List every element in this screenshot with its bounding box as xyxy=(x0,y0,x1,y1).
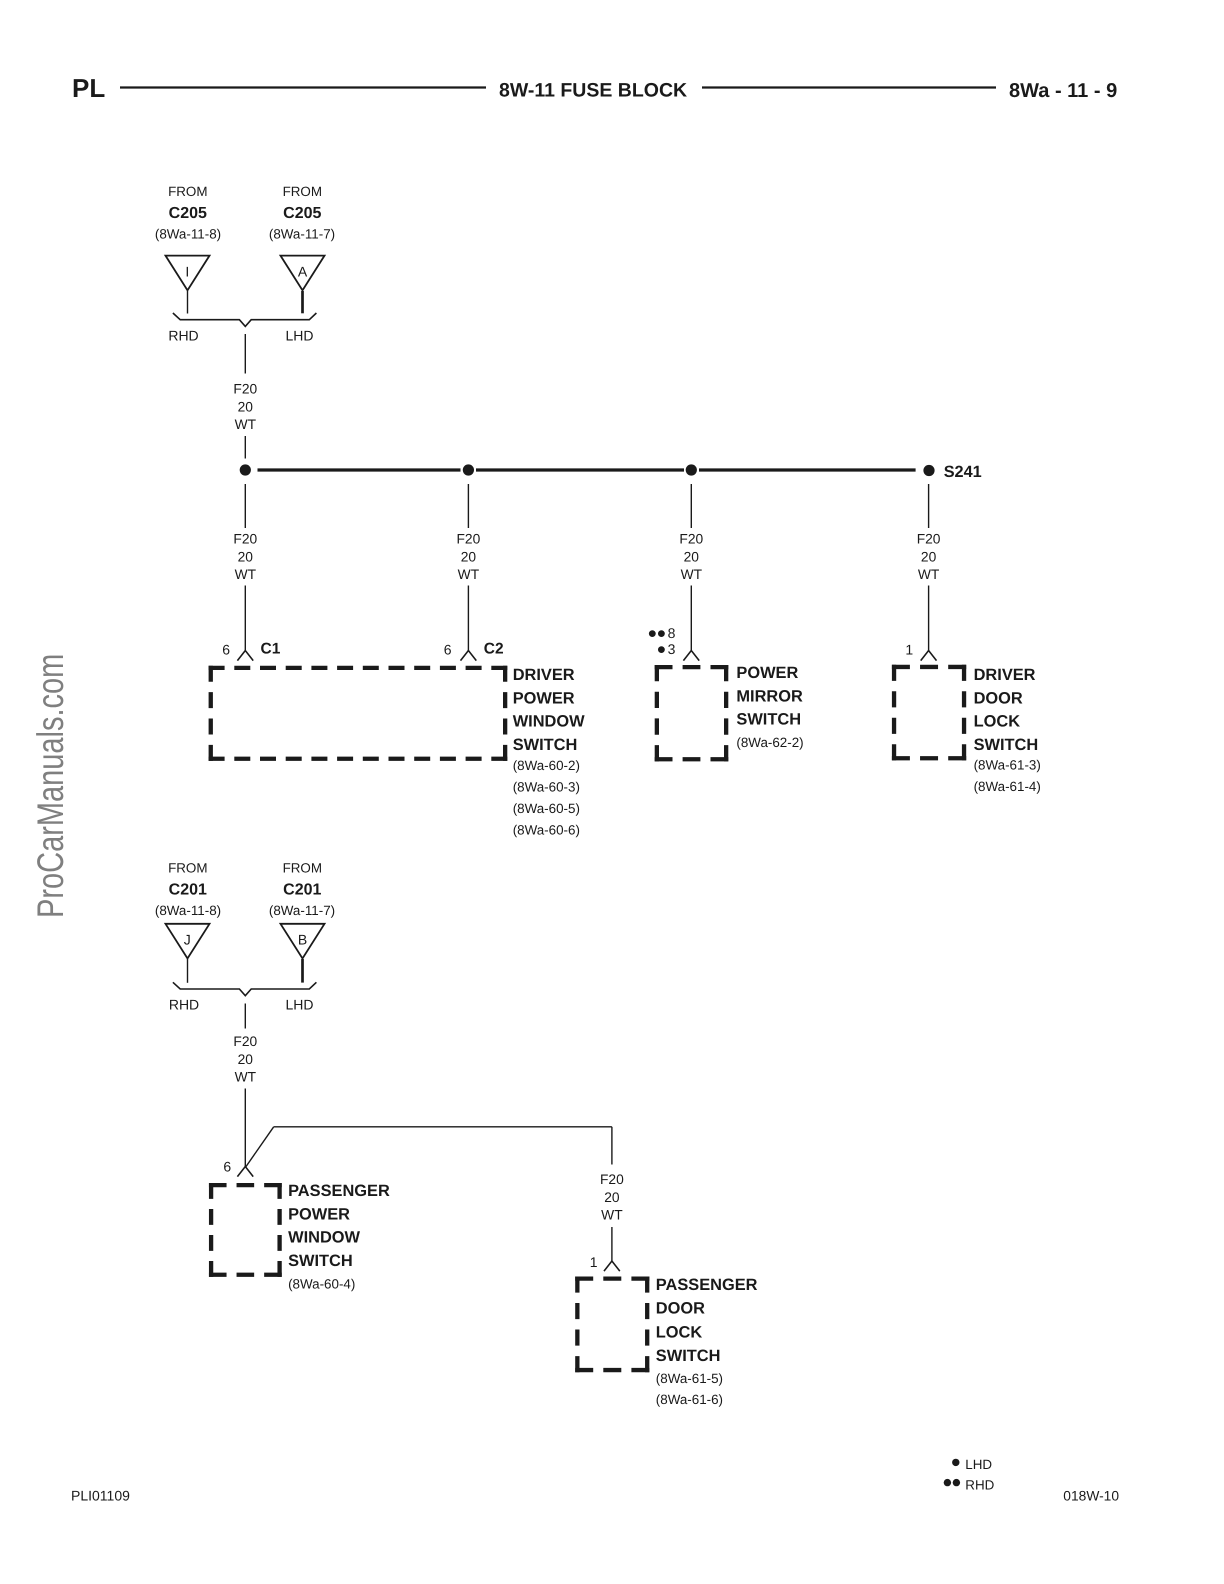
svg-text:C205: C205 xyxy=(283,205,321,222)
svg-text:PL: PL xyxy=(72,73,105,103)
svg-text:(8Wa-61-3): (8Wa-61-3) xyxy=(974,758,1041,773)
svg-text:DOOR: DOOR xyxy=(974,689,1023,707)
wire F20 label to passenger door lock fork xyxy=(611,1227,613,1261)
svg-text:ProCarManuals.com: ProCarManuals.com xyxy=(31,654,72,918)
wire from triangle A (LHD, heavy) xyxy=(301,291,304,313)
svg-text:F20: F20 xyxy=(917,532,941,547)
svg-text:DRIVER: DRIVER xyxy=(513,666,575,684)
svg-text:WT: WT xyxy=(601,1208,623,1223)
connector C201 label (left, RHD feed) xyxy=(155,861,221,919)
svg-text:RHD: RHD xyxy=(965,1477,994,1492)
merge brace RHD/LHD xyxy=(173,313,317,326)
connector fork at passenger door lock switch xyxy=(604,1261,620,1271)
wire brace to F20 label xyxy=(244,334,246,374)
svg-text:WT: WT xyxy=(458,567,480,582)
connector C205 label (right, LHD feed) xyxy=(269,184,335,242)
svg-text:POWER: POWER xyxy=(513,689,575,707)
svg-text:F20: F20 xyxy=(600,1172,624,1187)
svg-text:WT: WT xyxy=(235,417,257,432)
svg-text:C201: C201 xyxy=(283,882,321,899)
connector C201 label (right, LHD feed) xyxy=(269,861,335,919)
header rule left xyxy=(120,86,486,88)
svg-text:PLI01109: PLI01109 xyxy=(71,1488,130,1504)
svg-text:SWITCH: SWITCH xyxy=(513,736,578,754)
pin 8 marker dots (RHD) xyxy=(649,630,656,637)
svg-text:(8Wa-60-2): (8Wa-60-2) xyxy=(513,758,580,773)
label power mirror switch xyxy=(736,664,803,750)
wire label F20 20 WT (drop1) xyxy=(233,532,257,583)
component box: passenger door lock switch xyxy=(575,1277,649,1373)
wire drop1 lower xyxy=(244,586,246,651)
svg-text:(8Wa-61-5): (8Wa-61-5) xyxy=(656,1371,723,1386)
wire label F20 20 WT (passenger feed) xyxy=(233,1034,257,1085)
pin 3 marker dot (LHD) xyxy=(658,646,665,653)
svg-text:1: 1 xyxy=(590,1254,598,1270)
wire label F20 20 WT (main feed) xyxy=(233,382,257,433)
svg-text:6: 6 xyxy=(444,642,452,658)
svg-text:SWITCH: SWITCH xyxy=(656,1347,721,1365)
svg-text:LHD: LHD xyxy=(285,997,313,1013)
splice bus S241 wire segment 2 xyxy=(476,468,684,471)
label passenger power window switch xyxy=(288,1182,390,1292)
svg-text:WT: WT xyxy=(235,1070,257,1085)
svg-text:SWITCH: SWITCH xyxy=(288,1252,353,1270)
svg-text:POWER: POWER xyxy=(288,1205,350,1223)
label driver power window switch xyxy=(513,666,585,838)
svg-text:(8Wa-62-2): (8Wa-62-2) xyxy=(736,735,803,750)
component box: power mirror switch xyxy=(655,665,729,761)
svg-text:S241: S241 xyxy=(944,463,982,481)
svg-text:20: 20 xyxy=(238,549,254,564)
svg-text:WT: WT xyxy=(918,567,940,582)
wire drop1 upper xyxy=(244,484,246,528)
svg-text:C1: C1 xyxy=(261,641,281,658)
svg-text:DOOR: DOOR xyxy=(656,1300,705,1318)
splice bus S241 wire segment 3 xyxy=(699,468,916,471)
wire label F20 20 WT (drop2) xyxy=(457,532,481,583)
connector C205 label (left, RHD feed) xyxy=(155,184,221,242)
header rule right xyxy=(702,86,996,88)
svg-text:LOCK: LOCK xyxy=(656,1323,703,1341)
merge brace RHD/LHD (lower) xyxy=(173,982,317,995)
svg-text:8W-11 FUSE BLOCK: 8W-11 FUSE BLOCK xyxy=(499,79,687,101)
svg-text:I: I xyxy=(185,264,189,280)
junction dot 1 xyxy=(240,464,251,475)
branch wire horizontal xyxy=(274,1126,612,1128)
svg-text:(8Wa-60-5): (8Wa-60-5) xyxy=(513,801,580,816)
splice bus S241 wire segment 1 xyxy=(258,468,461,471)
svg-text:(8Wa-60-6): (8Wa-60-6) xyxy=(513,823,580,838)
label driver door lock switch xyxy=(974,666,1041,794)
svg-text:PASSENGER: PASSENGER xyxy=(656,1276,758,1294)
svg-text:WINDOW: WINDOW xyxy=(513,713,585,731)
svg-text:PASSENGER: PASSENGER xyxy=(288,1182,390,1200)
connector fork at driver door lock switch xyxy=(921,651,937,661)
component box: passenger power window switch xyxy=(209,1183,282,1277)
svg-text:F20: F20 xyxy=(233,1034,257,1049)
svg-text:(8Wa-61-6): (8Wa-61-6) xyxy=(656,1392,723,1407)
svg-text:(8Wa-11-7): (8Wa-11-7) xyxy=(269,903,335,918)
wire F20 label to passenger window fork xyxy=(244,1089,246,1167)
connector fork at C1 xyxy=(237,651,253,661)
svg-text:F20: F20 xyxy=(233,532,257,547)
svg-text:LOCK: LOCK xyxy=(974,713,1021,731)
off-page connector triangle I xyxy=(166,256,210,291)
component box: driver door lock switch xyxy=(892,665,966,761)
svg-text:C205: C205 xyxy=(169,205,207,222)
svg-text:(8Wa-11-7): (8Wa-11-7) xyxy=(269,227,335,242)
svg-text:20: 20 xyxy=(238,1052,254,1067)
wire drop3 upper xyxy=(690,484,692,528)
svg-text:20: 20 xyxy=(604,1190,620,1205)
wire label F20 20 WT (passenger door lock) xyxy=(600,1172,624,1223)
wire from triangle J (RHD) xyxy=(187,959,189,983)
svg-text:F20: F20 xyxy=(679,532,703,547)
svg-text:8: 8 xyxy=(668,625,676,641)
svg-text:C2: C2 xyxy=(484,641,504,658)
component box: driver power window switch xyxy=(209,666,508,761)
branch wire diagonal to passenger door lock xyxy=(246,1127,274,1167)
svg-text:WINDOW: WINDOW xyxy=(288,1229,360,1247)
svg-text:FROM: FROM xyxy=(168,184,207,199)
wire drop4 upper xyxy=(928,484,930,528)
wire brace to F20 label (lower) xyxy=(244,1004,246,1029)
svg-text:20: 20 xyxy=(921,549,937,564)
svg-text:3: 3 xyxy=(668,641,676,657)
branch wire vertical xyxy=(611,1127,613,1165)
svg-text:(8Wa-61-4): (8Wa-61-4) xyxy=(974,779,1041,794)
svg-text:1: 1 xyxy=(905,642,913,658)
off-page connector triangle B xyxy=(281,924,325,959)
svg-text:(8Wa-11-8): (8Wa-11-8) xyxy=(155,227,221,242)
junction dot 3 xyxy=(686,464,697,475)
svg-text:(8Wa-60-3): (8Wa-60-3) xyxy=(513,780,580,795)
wire from triangle B (LHD, heavy) xyxy=(301,959,304,983)
svg-text:F20: F20 xyxy=(233,382,257,397)
junction dot S241 xyxy=(923,465,934,476)
wire drop2 lower xyxy=(467,586,469,651)
svg-text:WT: WT xyxy=(681,567,703,582)
off-page connector triangle J xyxy=(166,924,210,959)
svg-text:WT: WT xyxy=(235,567,257,582)
legend dots RHD xyxy=(944,1479,951,1486)
wire drop3 lower xyxy=(690,586,692,651)
connector fork at power mirror switch xyxy=(683,651,699,661)
svg-text:20: 20 xyxy=(238,399,254,414)
svg-text:POWER: POWER xyxy=(736,664,798,682)
wire from triangle I (RHD) xyxy=(187,291,189,314)
svg-text:F20: F20 xyxy=(457,532,481,547)
svg-text:LHD: LHD xyxy=(285,328,313,344)
label passenger door lock switch xyxy=(656,1276,758,1407)
svg-text:8Wa - 11 - 9: 8Wa - 11 - 9 xyxy=(1009,80,1117,102)
junction dot 2 xyxy=(463,464,474,475)
svg-text:RHD: RHD xyxy=(168,328,198,344)
svg-text:(8Wa-11-8): (8Wa-11-8) xyxy=(155,903,221,918)
svg-text:RHD: RHD xyxy=(169,997,199,1013)
svg-text:018W-10: 018W-10 xyxy=(1063,1489,1119,1504)
svg-text:FROM: FROM xyxy=(168,861,207,876)
svg-text:(8Wa-60-4): (8Wa-60-4) xyxy=(288,1277,355,1292)
wire drop2 upper xyxy=(467,484,469,528)
svg-text:A: A xyxy=(298,264,308,280)
svg-text:FROM: FROM xyxy=(283,184,322,199)
connector fork at passenger power window switch xyxy=(237,1167,253,1177)
svg-text:MIRROR: MIRROR xyxy=(736,687,803,705)
svg-text:6: 6 xyxy=(223,1159,231,1175)
svg-text:B: B xyxy=(298,932,307,948)
svg-text:SWITCH: SWITCH xyxy=(736,711,801,729)
off-page connector triangle A xyxy=(281,256,325,291)
wire F20 label to splice xyxy=(244,436,246,459)
svg-text:FROM: FROM xyxy=(283,861,322,876)
svg-text:C201: C201 xyxy=(169,882,207,899)
wire label F20 20 WT (drop3) xyxy=(679,532,703,583)
svg-text:SWITCH: SWITCH xyxy=(974,736,1039,754)
svg-text:20: 20 xyxy=(461,549,477,564)
svg-text:J: J xyxy=(184,932,191,948)
svg-text:20: 20 xyxy=(684,549,700,564)
wire drop4 lower xyxy=(928,586,930,651)
svg-text:DRIVER: DRIVER xyxy=(974,666,1036,684)
legend dot LHD xyxy=(952,1459,959,1466)
svg-text:LHD: LHD xyxy=(965,1457,992,1472)
svg-text:6: 6 xyxy=(222,642,230,658)
wire label F20 20 WT (drop4) xyxy=(917,532,941,583)
connector fork at C2 xyxy=(461,651,477,661)
